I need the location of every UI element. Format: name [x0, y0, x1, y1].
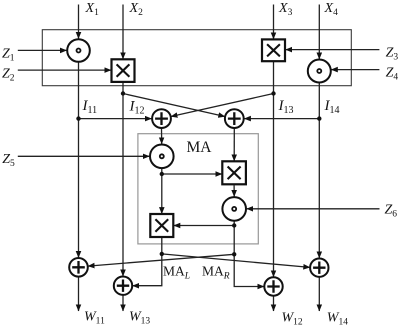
wire ADD4 down MA_L [135, 237, 162, 286]
wire MA_L diagonal to xor W14 [162, 254, 310, 268]
xor Q (I12^I14) [225, 109, 244, 128]
wire W13 output [122, 295, 124, 311]
junction I12 [121, 91, 125, 95]
xor P (I11^I13) [152, 109, 171, 128]
wire X1 input [78, 5, 80, 39]
wire Z4 input [331, 69, 379, 71]
wire I12 diagonal to xor Q [123, 94, 225, 117]
wire ADD3 to MUL4 [233, 185, 235, 196]
wire xor Q to ADD3 [233, 128, 235, 161]
wire I11 to xor P [79, 118, 152, 120]
multiplier U5 (Z5) [150, 145, 174, 169]
junction below U7 [232, 223, 236, 227]
wire Z3 input [286, 49, 380, 51]
junction I11 [76, 116, 80, 120]
wire Z2 input [18, 69, 111, 71]
wire I13 vertical [273, 61, 275, 277]
outer key-mixing box [42, 30, 351, 86]
multiplier U7 (Z6) [222, 197, 246, 221]
wire I14 vertical [318, 83, 320, 259]
junction MA_R [232, 252, 236, 256]
adder U3 (X3+Z3) [262, 39, 285, 61]
wire I12 vertical [122, 82, 124, 276]
wire MUL4 down MA_R [234, 221, 262, 287]
adder U6 (MA add) [222, 161, 246, 184]
xor W12 out [264, 277, 282, 295]
wire MUL4 junction to ADD4 [174, 225, 235, 227]
xor W14 out [310, 259, 328, 277]
wire I11 vertical [78, 62, 80, 258]
junction I13 [271, 91, 275, 95]
wire MA_R arrow into xor W12 [258, 286, 264, 288]
wire X3 input [273, 5, 275, 40]
wire W12 output [273, 296, 275, 311]
wire MA_R diagonal to xor W11 [88, 254, 234, 266]
wire MA_L arrow into xor W13 [133, 285, 139, 287]
wire X2 input [122, 5, 124, 59]
wire Z6 input [247, 208, 380, 210]
junction I14 [317, 116, 321, 120]
wire W11 output [78, 277, 80, 311]
xor W13 out [114, 277, 132, 295]
wire MUL3 junction to ADD3 [162, 173, 222, 175]
xor W11 out [69, 258, 88, 277]
junction below U5 [160, 172, 164, 176]
wire X4 input [318, 5, 320, 60]
MA box [138, 134, 258, 244]
wire Z1 input [18, 49, 67, 51]
wire xor P to MUL3 [161, 128, 163, 144]
wire W14 output [318, 277, 320, 311]
wire Z5 input [18, 155, 150, 157]
wire I14 to xor Q [244, 118, 319, 120]
multiplier U4 (X4*Z4) [308, 60, 331, 83]
junction MA_L [160, 252, 164, 256]
wire I13 diagonal to xor P [171, 94, 274, 117]
adder U8 (MA add 2) [150, 214, 173, 237]
adder U2 (X2+Z2) [112, 59, 135, 82]
multiplier U1 (X1*Z1) [67, 39, 90, 62]
wire MUL3 down to ADD4 [161, 168, 163, 213]
svg-text:MA: MA [187, 139, 213, 156]
